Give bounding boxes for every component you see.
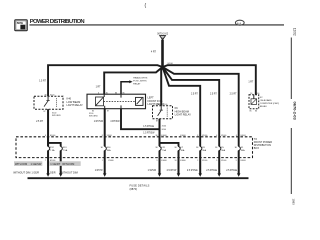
svg-text:1.5 RT/GE: 1.5 RT/GE: [143, 126, 154, 128]
svg-text:30A: 30A: [181, 149, 185, 152]
svg-text:WITH DIM: WITH DIM: [62, 162, 74, 166]
svg-text:1 RT/W: 1 RT/W: [95, 170, 104, 172]
svg-text:7.5A: 7.5A: [50, 149, 55, 152]
arrowhead fuse F7 output: [177, 173, 181, 176]
wire low beam relay to fuse box: [47, 109, 49, 146]
svg-text:K46: K46: [67, 96, 72, 100]
svg-text:ON-BOARD: ON-BOARD: [260, 99, 272, 102]
svg-text:87: 87: [44, 111, 46, 113]
svg-text:X100: X100: [255, 93, 259, 95]
wire fuse F13 out: [60, 151, 62, 174]
svg-text:7: 7: [45, 160, 46, 162]
svg-text:E1000: E1000: [180, 160, 185, 162]
bottom bus line: [28, 177, 249, 179]
relay K2 on-board computer relay (dashed box): [249, 93, 259, 113]
svg-text:E1000: E1000: [161, 160, 166, 162]
relay K46 low beam light relay (dashed box): [34, 94, 63, 113]
svg-text:1 GE/R: 1 GE/R: [32, 173, 40, 175]
right margin rule upper: [290, 38, 292, 100]
svg-text:1 GE/RT: 1 GE/RT: [50, 162, 60, 166]
label K46 low beam light relay: [67, 96, 84, 107]
svg-text:E1000: E1000: [241, 160, 246, 162]
wire right branch 3: [163, 67, 220, 146]
svg-text:87: 87: [156, 120, 158, 122]
wire left to low beam relay: [48, 65, 162, 96]
svg-text:6: 6: [98, 92, 99, 94]
svg-text:2: 2: [197, 160, 198, 162]
svg-text:4 RT/SW: 4 RT/SW: [110, 121, 120, 123]
arrowhead fuse F5 output: [217, 173, 221, 176]
connector label below low beam relay: [52, 112, 61, 116]
svg-text:30A: 30A: [221, 149, 225, 152]
svg-text:2.5 RT/GE: 2.5 RT/GE: [206, 170, 217, 172]
wire fuse F9 out: [199, 151, 201, 174]
svg-text:WITHOUT DIM: WITHOUT DIM: [13, 171, 30, 175]
variant bar with dim left: [14, 161, 42, 166]
svg-text:30: 30: [156, 135, 158, 137]
output wire labels: [95, 170, 238, 172]
svg-text:87: 87: [107, 111, 109, 113]
svg-text:30: 30: [106, 92, 108, 94]
svg-text:0670-2-03: 0670-2-03: [293, 102, 298, 121]
svg-text:30: 30: [45, 94, 47, 96]
svg-text:FOG LIGHTS: FOG LIGHTS: [133, 81, 147, 83]
svg-text:2.5 RT/GE: 2.5 RT/GE: [187, 170, 198, 172]
svg-text:E100: E100: [162, 129, 166, 131]
svg-text:5: 5: [236, 160, 237, 162]
svg-text:X1000: X1000: [202, 160, 207, 162]
wire fuse F16 out: [104, 151, 106, 174]
fuse F21: [159, 146, 167, 152]
oval badge: [235, 20, 244, 25]
svg-text:X100: X100: [162, 126, 166, 128]
wire fuse F5 out: [218, 151, 220, 174]
svg-text:SW LINKS: SW LINKS: [89, 116, 98, 118]
svg-text:1 W/SW: 1 W/SW: [148, 170, 157, 172]
svg-text:E1000: E1000: [180, 135, 185, 137]
wire fog relay 87 to fuse box: [104, 109, 106, 147]
svg-text:1 GE/R: 1 GE/R: [48, 173, 56, 175]
svg-text:2.5 RT: 2.5 RT: [230, 93, 237, 95]
splitter low beam fuses: [48, 137, 61, 146]
wire stub to headlights fog lights relay: [121, 82, 130, 95]
wire down to high beam relay: [161, 67, 162, 106]
title rule: [30, 24, 285, 26]
svg-text:1: 1: [102, 160, 103, 162]
battery main wire: [161, 40, 164, 67]
svg-text:1983: 1983: [292, 199, 296, 206]
arrowhead fuse F16 output: [103, 173, 107, 176]
svg-text:2.5 RT: 2.5 RT: [36, 121, 43, 123]
wire fuse F21 out: [159, 151, 161, 174]
svg-text:2.5 RT: 2.5 RT: [210, 93, 217, 95]
svg-text:86: 86: [115, 92, 117, 94]
svg-text:8: 8: [102, 135, 103, 137]
svg-text:4: 4: [216, 135, 217, 137]
relay left front fog light relay (solid box): [87, 92, 146, 112]
fuse box bottom edge connector labels: [45, 160, 246, 162]
svg-text:9: 9: [157, 160, 158, 162]
relay K6 high beam light relay (dashed box): [153, 104, 173, 123]
label headlights fog lights relay: [133, 77, 148, 86]
svg-text:X100: X100: [50, 94, 54, 96]
svg-text:10: 10: [175, 160, 177, 162]
svg-text:2.5 RT/GE: 2.5 RT/GE: [226, 170, 237, 172]
svg-text:1 RT/SW: 1 RT/SW: [94, 121, 104, 123]
svg-text:1 RT: 1 RT: [248, 81, 254, 83]
svg-text:7.5A: 7.5A: [63, 149, 68, 152]
arrowhead fuse F13 output: [59, 173, 63, 176]
svg-text:E1000: E1000: [50, 135, 55, 137]
off-page arrow from 0670-2-02 (battery feed): [157, 33, 169, 40]
svg-text:(0870): (0870): [130, 187, 138, 191]
svg-text:RELAY: RELAY: [133, 83, 141, 86]
svg-text:1 GE/SW: 1 GE/SW: [31, 162, 42, 166]
fuse box top edge connector labels: [45, 135, 246, 137]
svg-text:7.5A: 7.5A: [162, 149, 167, 152]
svg-text:1.5 RT: 1.5 RT: [39, 81, 46, 83]
svg-text:LEFT: LEFT: [148, 95, 155, 99]
svg-text:LIGHT RELAY: LIGHT RELAY: [175, 113, 192, 117]
wire right branch 2: [163, 67, 239, 146]
right margin rule lower: [290, 128, 292, 194]
svg-text:RELAY: RELAY: [260, 105, 268, 108]
svg-text:WITH DIM: WITH DIM: [15, 162, 27, 166]
svg-text:30A: 30A: [107, 149, 111, 152]
svg-text:1.5 RT/SW: 1.5 RT/SW: [143, 133, 155, 135]
wire right to OBC relay: [163, 65, 256, 95]
wire fog relay 87a to high beam output: [121, 109, 160, 130]
svg-text:30A: 30A: [241, 149, 245, 152]
svg-text:WITHOUT DIM: WITHOUT DIM: [61, 171, 78, 175]
wire fuse F7 out: [178, 151, 180, 174]
svg-text:E1000: E1000: [161, 135, 166, 137]
fuse F18: [48, 146, 56, 152]
svg-text:HIGH BEAM: HIGH BEAM: [175, 109, 189, 113]
svg-text:30: 30: [158, 104, 160, 106]
svg-text:POWER DISTRIBUTION: POWER DISTRIBUTION: [30, 19, 85, 25]
wire fuse F12 out: [47, 151, 49, 174]
svg-text:X1000: X1000: [221, 160, 226, 162]
svg-text:1 RT: 1 RT: [96, 86, 102, 88]
svg-text:X1000: X1000: [108, 160, 113, 162]
svg-text:85: 85: [123, 92, 125, 94]
svg-text:12/92: 12/92: [293, 28, 297, 36]
svg-text:COMPUTER (OBC): COMPUTER (OBC): [260, 103, 280, 105]
logo box BMW 3: [15, 20, 27, 31]
label left front fog light relay: [148, 95, 165, 106]
svg-text:8: 8: [197, 135, 198, 137]
variant bar with dim right: [49, 161, 80, 166]
fuse F7: [178, 146, 185, 152]
arrowhead fuse F12 output: [46, 173, 50, 176]
svg-text:30A: 30A: [202, 149, 206, 152]
label K6 high beam light relay: [175, 106, 192, 117]
arrowhead fuse F1 output: [237, 173, 241, 176]
svg-text:LOW BEAM: LOW BEAM: [67, 100, 81, 104]
arrowhead fuse F9 output: [198, 173, 202, 176]
label K2 on-board computer relay: [260, 97, 280, 108]
svg-text:2.5 RT: 2.5 RT: [191, 93, 198, 95]
svg-text:85: 85: [250, 111, 252, 113]
fuse F9: [200, 146, 207, 152]
svg-text:30: 30: [250, 93, 252, 95]
wire right branch 4: [163, 67, 201, 146]
fuse F19: [60, 146, 68, 152]
connector label below fog relay: [89, 113, 98, 117]
arrowhead fuse F21 output: [158, 173, 162, 176]
svg-text:E1000: E1000: [241, 135, 246, 137]
svg-text:6: 6: [45, 135, 46, 137]
svg-text:LIGHT RELAY: LIGHT RELAY: [148, 102, 165, 106]
svg-text:2.5 RT/W: 2.5 RT/W: [167, 170, 177, 172]
svg-text:FRONT FOG: FRONT FOG: [148, 99, 163, 103]
fuse F5: [219, 146, 226, 152]
svg-text:SW LINKS: SW LINKS: [52, 115, 61, 117]
svg-text:X1000: X1000: [202, 135, 207, 137]
fuse F16: [104, 146, 111, 152]
svg-text:4 RT: 4 RT: [151, 51, 157, 54]
wire left to fog light relay: [104, 67, 162, 94]
svg-text:4: 4: [236, 135, 237, 137]
svg-text:LIGHT RELAY: LIGHT RELAY: [67, 103, 84, 107]
svg-text:X1000: X1000: [221, 135, 226, 137]
svg-text:X100: X100: [163, 104, 167, 106]
wire high beam relay 87 to fuse box: [159, 119, 161, 147]
svg-text:86: 86: [255, 111, 257, 113]
fuse box (dashed): [16, 137, 253, 158]
svg-text:BOX: BOX: [254, 147, 260, 150]
svg-text:HEADLIGHTS: HEADLIGHTS: [133, 77, 148, 80]
splitter high beam fuses: [160, 143, 179, 146]
wire fuse F1 out: [238, 151, 240, 174]
svg-text:3: 3: [216, 160, 217, 162]
label to front power distribution box: [254, 138, 272, 150]
fuse F1: [238, 146, 245, 152]
svg-text:X1000: X1000: [107, 135, 112, 137]
